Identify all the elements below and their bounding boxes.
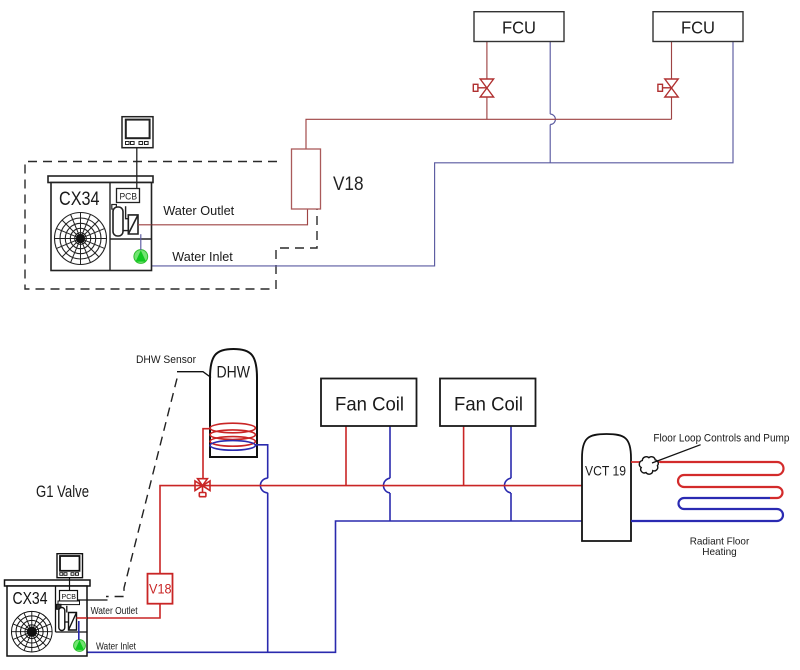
svg-text:PCB: PCB — [62, 592, 77, 601]
svg-text:V18: V18 — [149, 580, 172, 596]
svg-text:G1 Valve: G1 Valve — [36, 482, 89, 501]
svg-text:Heating: Heating — [702, 547, 737, 558]
svg-text:Water Outlet: Water Outlet — [91, 606, 138, 617]
svg-text:CX34: CX34 — [13, 588, 48, 608]
svg-text:V18: V18 — [333, 173, 364, 195]
svg-text:VCT 19: VCT 19 — [585, 464, 626, 479]
svg-text:DHW: DHW — [217, 363, 251, 382]
svg-text:Water Inlet: Water Inlet — [172, 249, 233, 264]
svg-text:Fan Coil: Fan Coil — [335, 394, 404, 416]
svg-text:Water Inlet: Water Inlet — [96, 642, 136, 653]
svg-text:Radiant Floor: Radiant Floor — [690, 537, 750, 548]
svg-text:PCB: PCB — [120, 192, 138, 202]
svg-text:FCU: FCU — [681, 18, 715, 38]
svg-text:Fan Coil: Fan Coil — [454, 394, 523, 416]
svg-text:DHW Sensor: DHW Sensor — [136, 354, 196, 366]
svg-text:Water Outlet: Water Outlet — [163, 203, 234, 218]
svg-text:Floor Loop Controls and Pump: Floor Loop Controls and Pump — [653, 433, 789, 445]
svg-text:CX34: CX34 — [59, 188, 100, 210]
svg-text:FCU: FCU — [502, 18, 536, 38]
